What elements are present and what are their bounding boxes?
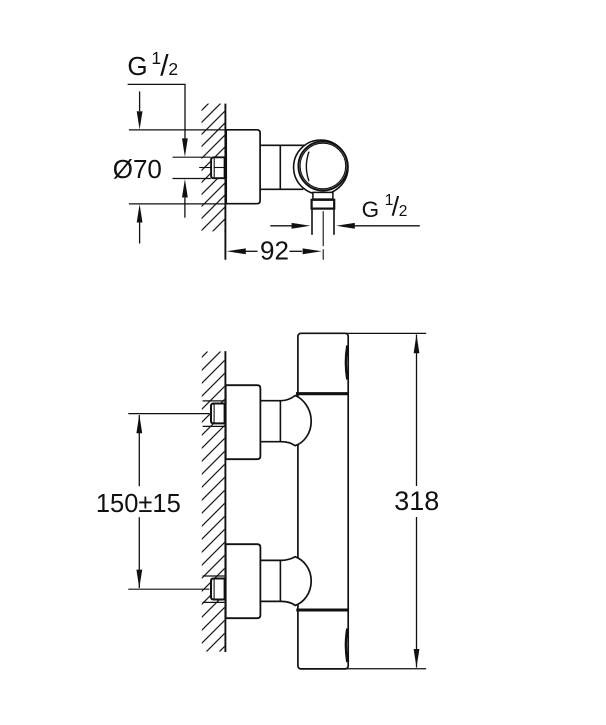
svg-text:2: 2: [399, 203, 408, 220]
dimension 150 plus/minus 15: [96, 414, 181, 588]
valve neck bottom edge: [260, 188, 303, 190]
outlet pipe centerline: [322, 211, 324, 260]
extension line 318 top: [340, 332, 426, 334]
extension line 318 bottom: [340, 668, 426, 670]
lower union escutcheon: [226, 544, 261, 618]
svg-text:G: G: [362, 197, 380, 222]
handle face highlight: [306, 152, 309, 182]
nipple bore lines lower union: [203, 576, 225, 602]
housing circle behind handle: [294, 140, 348, 194]
svg-text:2: 2: [168, 59, 178, 79]
centerline / extension lower union: [128, 588, 224, 590]
svg-text:318: 318: [394, 486, 439, 516]
wall face line (bottom view): [224, 351, 226, 652]
witness line pipe bottom: [173, 178, 211, 180]
outlet dim right arrow / leader: [336, 223, 420, 229]
witness line pipe top: [173, 156, 211, 158]
svg-text:150±15: 150±15: [96, 490, 181, 518]
supply nipple in wall (top view): [211, 157, 225, 178]
label G 1/2 (outlet): [362, 192, 408, 222]
body bottom joint (thick): [296, 608, 348, 611]
escutcheon plate (top view): [226, 130, 260, 204]
nipple centerline: [199, 167, 224, 169]
outlet dim left arrow: [270, 223, 310, 229]
G1/2 arrow up: [182, 179, 188, 218]
svg-text:G: G: [127, 51, 147, 81]
lower union connector and dome: [260, 557, 311, 606]
handle inner ring: [300, 143, 346, 189]
mixer body: [298, 333, 348, 669]
dimension 92: [227, 236, 322, 266]
nipple bore lines upper union: [203, 401, 225, 427]
extension line plate top: [129, 129, 226, 131]
top cap highlight: [346, 346, 347, 380]
upper union escutcheon: [226, 385, 261, 459]
body top joint (thick): [296, 392, 348, 395]
dia70 arrow down: [137, 91, 143, 129]
neck divider: [279, 145, 281, 189]
valve neck top edge: [260, 144, 306, 146]
wall hatching (bottom view): [202, 352, 225, 652]
svg-text:92: 92: [260, 236, 289, 266]
wall hatching (top view): [202, 104, 225, 232]
G1/2 leader underline: [128, 84, 185, 138]
handle circle (top view): [298, 142, 347, 191]
G1/2 arrow down: [182, 138, 188, 157]
dia70 arrow up: [137, 204, 143, 243]
outlet collar: [313, 192, 333, 199]
supply nipple lower (in wall): [211, 579, 225, 600]
upper union connector and dome: [260, 396, 311, 446]
bottom cap highlight: [346, 629, 347, 663]
svg-text:Ø70: Ø70: [113, 154, 162, 184]
wall face line (top view): [224, 104, 226, 260]
label G 1/2 (wall supply): [127, 48, 178, 83]
outlet pipe walls: [312, 209, 334, 235]
outlet nut: [312, 200, 335, 209]
centerline / extension upper union: [128, 413, 224, 415]
supply nipple upper (in wall): [211, 404, 225, 424]
extension line plate bottom: [129, 203, 226, 205]
dimension 318: [394, 334, 439, 667]
